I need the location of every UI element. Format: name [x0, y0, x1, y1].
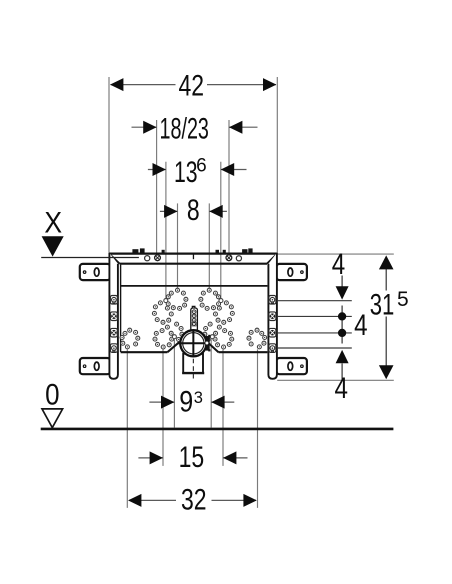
dimension 32 arrow left [128, 494, 141, 507]
top rail hole right [236, 256, 241, 261]
svg-text:4: 4 [332, 248, 345, 281]
floor line [41, 428, 394, 431]
fastener level line 3 [277, 332, 352, 334]
extension line frame top right [277, 253, 394, 255]
tab slot bottom-right [288, 362, 293, 370]
wall bracket tab bottom-left [80, 358, 110, 374]
svg-text:4: 4 [354, 309, 367, 342]
level line X [41, 257, 139, 259]
dimension 18/23 arrow left [143, 121, 156, 134]
tab hole bottom-left [83, 365, 86, 368]
pipe crosshair horizontal [178, 342, 210, 344]
dimension 15 line [138, 457, 163, 459]
panel edge left [120, 265, 122, 352]
extension line 8 right [208, 203, 210, 288]
svg-text:31: 31 [370, 287, 395, 321]
wall bracket tab top-left [80, 264, 110, 280]
svg-text:15: 15 [179, 440, 205, 473]
left rail fastener 4 [110, 344, 117, 353]
tab slot bottom-left [94, 362, 99, 370]
svg-text:13: 13 [174, 157, 198, 189]
right rail fastener 4 [269, 344, 276, 353]
drain pipe outer circle [180, 330, 206, 356]
dimension 32 line [129, 499, 176, 501]
top rail screw left [155, 255, 161, 261]
drain pipe inner circle [183, 333, 204, 354]
svg-text:18/23: 18/23 [159, 112, 208, 145]
dimension 31-5 arrow up [379, 255, 394, 269]
extension line 9.3 right [210, 339, 212, 427]
extension line 15 right [222, 350, 224, 466]
right rail [268, 253, 277, 379]
dimension anchor holes [164, 299, 168, 303]
extension line frame bottom right [277, 379, 394, 381]
dimension 31-5 shaft [385, 257, 387, 291]
pipe support diagonal left [167, 342, 179, 352]
svg-text:4: 4 [334, 372, 347, 405]
extension line 42 left [108, 77, 110, 253]
svg-text:5: 5 [397, 288, 409, 311]
dimension 15 arrow right [223, 451, 236, 464]
dimension 4 top arrow [336, 286, 349, 299]
svg-text:32: 32 [181, 483, 207, 516]
extension line 18/23 right [228, 120, 230, 255]
extension line 42 right [276, 77, 278, 253]
level marker 0 triangle [42, 409, 63, 428]
left rail fastener 1 [110, 296, 117, 305]
pipe centreline dashed [192, 358, 194, 380]
dimension 13-6 arrow right [221, 163, 234, 176]
svg-text:0: 0 [45, 378, 59, 411]
fixing strip above pipe [192, 306, 195, 308]
dimension 4 bottom arrow [336, 350, 349, 363]
svg-text:6: 6 [196, 156, 207, 177]
right rail fastener 1 [269, 296, 276, 305]
pipe centreline vertical [192, 330, 194, 357]
hole pattern right half [207, 288, 211, 292]
dimension 4 mid dot upper [338, 312, 346, 320]
top rail centre tick [192, 254, 194, 260]
dimension 8 line [160, 210, 178, 212]
svg-text:42: 42 [179, 69, 205, 102]
dimension 42 arrow right [263, 78, 276, 91]
extension line 32 left [126, 349, 128, 508]
fastener level line 2 [277, 315, 352, 317]
level marker X triangle [42, 236, 64, 256]
dimension 13-6 line [148, 169, 166, 171]
hole pattern left half [176, 288, 180, 292]
extension line 8 left [177, 203, 179, 288]
tab hole bottom-right [301, 365, 304, 368]
pipe clamp screw [205, 336, 209, 351]
dimension 9-3 arrow right [211, 396, 224, 409]
fixing strip holes [192, 310, 196, 314]
wall bracket tab top-right [277, 264, 307, 280]
tab hole top-left [83, 271, 86, 274]
extension line 9.3 left [173, 339, 175, 427]
svg-text:8: 8 [187, 193, 200, 226]
dimension 31-5 arrow down [379, 365, 394, 379]
wall bracket tab bottom-right [277, 358, 307, 374]
left rail [109, 253, 118, 379]
dimension 4 top shaft [341, 276, 343, 287]
dimension 18/23 arrow right [229, 121, 242, 134]
dimension 15 arrow left [150, 451, 163, 464]
frame top back edge [109, 253, 277, 255]
fixing strip clamp [192, 322, 197, 326]
dimension 8 arrow left [164, 205, 177, 218]
right rail fastener 2 [269, 312, 276, 321]
frame top front edge [120, 263, 267, 265]
pipe support diagonal right [208, 342, 219, 352]
top rail bottom edge [121, 285, 268, 287]
dimension 4 mid shaft [341, 306, 343, 344]
panel bottom edge right part [219, 351, 268, 353]
extension line 18/23 left [156, 120, 158, 255]
svg-text:3: 3 [194, 389, 203, 407]
right rail fastener 3 [269, 328, 276, 337]
fastener level line 4 [277, 347, 352, 349]
dimension 13-6 arrow left [153, 163, 166, 176]
extension line 13.6 left [165, 162, 167, 299]
extension line 13.6 right [220, 162, 222, 299]
fastener level line 1 [277, 300, 352, 302]
extension line 32 right [257, 349, 259, 508]
tab slot top-right [288, 268, 293, 276]
svg-text:X: X [44, 206, 62, 239]
top rail screw right [226, 255, 232, 261]
tab slot top-left [94, 268, 99, 276]
panel bottom edge left part [121, 351, 168, 353]
dimension 42 arrow left [110, 78, 123, 91]
svg-text:9: 9 [179, 385, 193, 418]
left rail fastener 3 [110, 328, 117, 337]
mounting clips on top rail [132, 249, 138, 252]
pipe crosshair vertical [192, 331, 194, 357]
extension line 15 left [162, 350, 164, 466]
dimension 42 line [111, 84, 176, 86]
top rail chamfer right [267, 255, 276, 264]
left rail fastener 2 [110, 312, 117, 321]
dimension 4 mid dot lower [338, 329, 346, 337]
top rail chamfer left [110, 255, 120, 264]
outlet box below pipe [183, 354, 203, 373]
dimension 9-3 arrow left [161, 396, 174, 409]
dimension 32 arrow right [243, 494, 256, 507]
outlet box bottom edge [182, 372, 204, 374]
dimension 18/23 line [132, 126, 157, 128]
dimension 9-3 line [149, 401, 174, 403]
dimension 4 bottom shaft [341, 363, 343, 381]
top rail hole left [145, 256, 150, 261]
dimension 8 arrow right [209, 205, 222, 218]
tab hole top-right [301, 271, 304, 274]
